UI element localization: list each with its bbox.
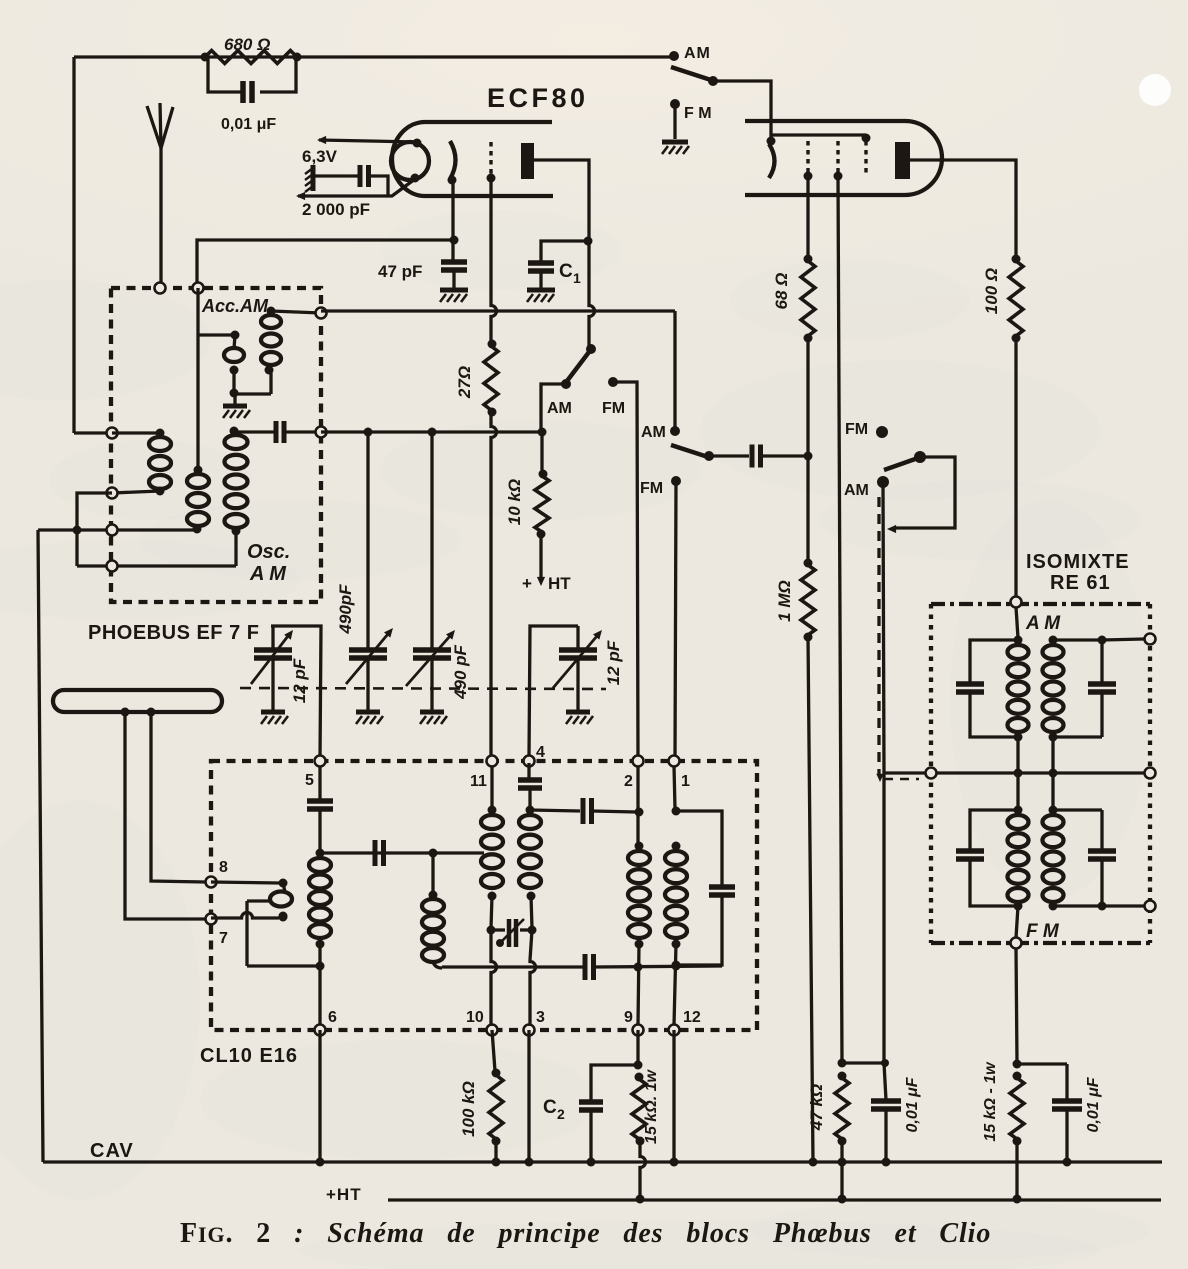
wire ground to 2000pF cap	[315, 174, 359, 177]
wire AM secondary to node	[1102, 639, 1145, 640]
wire pin5 vertical	[318, 766, 321, 800]
label 10 k ohm	[505, 479, 524, 525]
wire ISOMIXTE bottom out	[1016, 906, 1018, 1062]
wire S2 FM to pin2	[613, 382, 638, 760]
capacitor 2000 pF	[360, 165, 369, 187]
wire y530 row	[38, 528, 197, 531]
wire 27ohm vertical g1 triode	[491, 178, 497, 760]
svg-text:2: 2	[557, 1106, 565, 1122]
coil T2 primary IF2	[628, 766, 650, 1025]
capacitor 0,01 uF across R1	[243, 81, 252, 103]
label RE 61	[1050, 572, 1111, 594]
ground wall for 2000pF	[305, 165, 313, 192]
wire grid return to Acc AM	[197, 236, 459, 289]
caption Fig 2	[180, 1218, 991, 1249]
wire 6,3V to heater	[317, 136, 417, 144]
resistor 15k 1w second	[1010, 1060, 1024, 1204]
label C1	[559, 261, 581, 286]
svg-text:ECF80: ECF80	[487, 83, 589, 113]
capacitor series y967	[585, 954, 594, 980]
node ISOMIXTE left	[926, 768, 937, 779]
svg-text:FM: FM	[845, 421, 868, 438]
label 68 ohm	[772, 273, 791, 310]
node box right y313	[316, 308, 327, 319]
arrow 490pF first	[346, 628, 393, 684]
capacitor FM secondary parallel	[1053, 810, 1116, 911]
node ISOMIXTE bottom	[1011, 938, 1022, 949]
label 0,01 uF first	[904, 1076, 921, 1132]
wire pin3 to CAV	[525, 1030, 534, 1167]
pin 3 CL10	[524, 1009, 546, 1036]
wire S4 to ISOMIXTE node	[884, 771, 929, 774]
pin 5 CL10	[305, 756, 326, 790]
coil T3 AM secondary	[1043, 636, 1064, 742]
label tube ECF80	[487, 83, 589, 113]
wire dipole right leg to pin8	[151, 712, 205, 882]
node box right y432	[316, 427, 327, 438]
pin 9 CL10	[624, 1009, 644, 1036]
coil T3 AM primary	[1008, 645, 1029, 742]
label +HT mid	[522, 574, 571, 593]
capacitor 47 pF	[441, 262, 467, 288]
grid g1 U1 pentode	[804, 141, 813, 181]
wire pin6 to CAV	[316, 1030, 325, 1167]
node box top grid wire	[193, 283, 204, 294]
pin 7 CL10	[206, 914, 229, 948]
label 1 M ohm	[775, 580, 794, 622]
label 47 k ohm	[807, 1084, 826, 1131]
ground 490pF first	[356, 712, 383, 724]
capacitor AM primary parallel	[956, 640, 1018, 737]
dashed gang line S4	[876, 497, 919, 782]
rail +HT bottom	[326, 1185, 1161, 1204]
ground Acc AM	[223, 394, 250, 418]
svg-text:4: 4	[536, 744, 545, 761]
svg-text:HT: HT	[548, 574, 571, 593]
capacitor osc AM padder	[234, 421, 321, 443]
svg-text:PHOEBUS EF 7 F: PHOEBUS EF 7 F	[88, 622, 259, 644]
resistor 47 k ohm	[835, 1059, 849, 1204]
dashed block Phoebus Acc-AM Osc-AM	[111, 288, 321, 602]
coil L1 antenna AM	[112, 429, 171, 496]
svg-text:27Ω: 27Ω	[455, 366, 474, 399]
svg-text:Osc.: Osc.	[247, 541, 290, 563]
label Acc.AM	[201, 296, 269, 316]
svg-text:Acc.AM: Acc.AM	[201, 296, 269, 316]
label 2 000 pF	[302, 200, 370, 219]
pin 11 CL10	[470, 756, 498, 791]
wire pin7 inside	[211, 913, 288, 922]
svg-text:F M: F M	[684, 105, 712, 122]
label PHOEBUS EF 7 F	[88, 622, 259, 644]
node ISOMIXTE top	[1011, 597, 1022, 608]
svg-text:+: +	[522, 574, 532, 593]
svg-text:6: 6	[328, 1009, 337, 1026]
wire 2000pF to heater bottom	[296, 176, 415, 200]
switch S2 arm	[567, 344, 596, 381]
label 15k 1w first	[643, 1069, 660, 1144]
resistor 100 ohm	[1009, 255, 1023, 343]
node box left y433	[107, 428, 118, 439]
svg-text:100 kΩ: 100 kΩ	[459, 1081, 478, 1137]
switch S3 arm	[671, 445, 714, 461]
arrow trimmer 12pF first	[251, 630, 293, 684]
svg-text:2 000 pF: 2 000 pF	[302, 200, 370, 219]
wire 12pF-2 to pin4	[529, 626, 578, 758]
dashed gang line tuning	[240, 688, 606, 689]
ground 12pF second	[566, 712, 593, 724]
svg-text:68 Ω: 68 Ω	[772, 273, 791, 310]
capacitor pin5 series	[307, 801, 333, 858]
arrow 12pF second	[553, 630, 602, 688]
switch S2 AM contact	[547, 379, 572, 417]
wire 490pF-2 to bus	[430, 432, 433, 650]
variable capacitor 490pF first	[349, 650, 387, 710]
wire g2 long lead	[838, 176, 842, 1063]
antenna	[147, 103, 173, 287]
svg-text:1 MΩ: 1 MΩ	[775, 580, 794, 622]
variable capacitor 12pF second	[559, 626, 597, 710]
coil L2 osc coupling	[187, 288, 209, 534]
ground 12pF first	[261, 712, 288, 724]
FM dipole antenna	[53, 690, 222, 717]
coupling loop pins 8-7	[211, 879, 292, 921]
wire pentode anode to 100 ohm line	[910, 160, 1016, 259]
cathode U1 pentode	[767, 137, 776, 179]
wire trimmer legs to pins 10 3	[491, 960, 536, 1026]
coil L0 acc primary	[198, 331, 244, 398]
wire tap y853	[320, 849, 484, 858]
capacitor across T2 secondary	[676, 811, 735, 965]
svg-text:0,01 μF: 0,01 μF	[1085, 1076, 1102, 1132]
svg-text:12 pF: 12 pF	[290, 658, 309, 703]
svg-text:100 Ω: 100 Ω	[982, 268, 1001, 314]
capacitor series y853	[375, 840, 384, 866]
wire loop tail	[247, 901, 320, 966]
wire S4 AM down	[883, 482, 884, 1063]
grid g3 U1 pentode	[864, 141, 867, 174]
wire pin12 to CAV	[670, 1030, 679, 1167]
svg-text:1: 1	[573, 270, 581, 286]
resistor 68 ohm	[801, 255, 815, 343]
svg-text:A M: A M	[1025, 613, 1061, 634]
wire bypass loop around R1	[208, 57, 296, 92]
coil T4 FM secondary	[1043, 815, 1064, 911]
wire 68ohm to junction	[806, 338, 809, 456]
resistor 10 k ohm	[535, 470, 549, 539]
wire anode to C1 junction and switch	[534, 160, 595, 349]
svg-text:AM: AM	[641, 424, 666, 441]
svg-text:2: 2	[624, 773, 633, 790]
svg-text:F M: F M	[1026, 921, 1060, 942]
node ISOMIXTE right bottom	[1145, 901, 1156, 912]
wire g3 tie	[771, 134, 871, 143]
svg-text:6,3V: 6,3V	[302, 147, 338, 166]
svg-text:AM: AM	[547, 400, 572, 417]
switch S4 arm	[884, 451, 926, 470]
resistor 27 ohm	[484, 340, 498, 417]
coil T4 FM primary	[1008, 815, 1029, 911]
label 12 pF first	[290, 658, 309, 703]
switch S4 FM contact	[845, 421, 888, 438]
svg-text:FIG. 2 : Schéma de principe de: FIG. 2 : Schéma de principe des blocs Ph…	[180, 1218, 991, 1249]
svg-text:FM: FM	[602, 400, 625, 417]
wire grid bus y311	[321, 311, 675, 427]
wire S3 FM to pin1	[675, 481, 676, 760]
switch S1a AM contact	[669, 45, 711, 62]
label ISOMIXTE	[1026, 551, 1130, 573]
resistor 1 M ohm	[801, 456, 815, 642]
label Osc. AM	[247, 541, 290, 585]
switch S2 FM contact	[602, 377, 625, 417]
node box top antenna	[155, 283, 166, 294]
svg-text:5: 5	[305, 772, 314, 789]
wire left jog x77	[73, 493, 113, 566]
coil osc second	[519, 815, 541, 935]
switch S1a arm	[671, 67, 718, 86]
ground 490pF second	[420, 712, 447, 724]
trimmer capacitor CL10	[491, 919, 532, 960]
wire acc secondary top to node	[271, 311, 321, 313]
tube U1 pentode envelope	[745, 121, 942, 195]
svg-text:+HT: +HT	[326, 1185, 362, 1204]
wire CAV left rail	[38, 530, 43, 1162]
wire top bus from left corner to AM switch	[74, 57, 674, 433]
svg-text:11: 11	[470, 773, 487, 790]
label 100 k ohm	[459, 1081, 478, 1137]
svg-text:10 kΩ: 10 kΩ	[505, 479, 524, 525]
capacitor pin4 series	[518, 763, 542, 815]
wire y967 long	[442, 962, 722, 972]
ground for FM contact	[662, 142, 689, 154]
node ISOMIXTE right mid	[1145, 768, 1156, 779]
capacitor S3 coupling	[709, 445, 813, 468]
bus ISOMIXTE middle	[936, 771, 1145, 774]
label 47 pF	[378, 262, 422, 281]
dashed block CL10 E16	[211, 761, 757, 1030]
label 100 ohm	[982, 268, 1001, 314]
pin 8 CL10	[206, 859, 229, 888]
svg-text:FM: FM	[640, 480, 663, 497]
capacitor FM primary parallel	[956, 810, 1018, 906]
node ISOMIXTE right top	[1145, 634, 1156, 645]
bus CAV	[43, 1160, 1162, 1163]
label 12 pF second	[604, 640, 623, 685]
label AM in ISOMIXTE	[1025, 613, 1061, 634]
svg-text:1: 1	[681, 773, 690, 790]
svg-text:7: 7	[219, 930, 228, 947]
svg-text:47 kΩ: 47 kΩ	[807, 1084, 826, 1131]
pin 6 CL10	[315, 1009, 338, 1036]
svg-text:CAV: CAV	[90, 1140, 134, 1162]
label CL10 E16	[200, 1045, 298, 1067]
switch S4 AM contact	[844, 476, 889, 499]
svg-text:8: 8	[219, 859, 228, 876]
node box left y566	[107, 561, 118, 572]
svg-text:C: C	[543, 1097, 557, 1118]
resistor R1 680 ohm	[201, 51, 302, 64]
variable capacitor 490pF second	[413, 650, 451, 710]
wire FM transformer feeds	[1014, 773, 1058, 815]
svg-text:490 pF: 490 pF	[451, 644, 470, 699]
coil T1 primary IF1	[309, 858, 331, 1025]
svg-text:15 kΩ. 1w: 15 kΩ. 1w	[643, 1069, 660, 1144]
wire 10k from bus	[540, 432, 543, 474]
svg-text:A M: A M	[249, 563, 287, 585]
anode U1 triode	[521, 143, 534, 179]
ground for C1	[527, 290, 555, 302]
label 490 pF second	[451, 644, 470, 699]
wire dipole left leg to pin7	[125, 712, 205, 919]
tube U1 triode envelope	[392, 122, 553, 196]
label 6,3V	[302, 147, 338, 166]
grid U1 triode	[487, 142, 496, 183]
svg-text:47 pF: 47 pF	[378, 262, 422, 281]
svg-text:AM: AM	[684, 45, 711, 62]
svg-text:12: 12	[683, 1009, 701, 1026]
svg-text:0,01 μF: 0,01 μF	[221, 116, 276, 133]
wire FM secondary to node	[1053, 904, 1145, 907]
svg-text:CL10 E16: CL10 E16	[200, 1045, 298, 1067]
cathode U1 triode	[448, 141, 457, 185]
svg-text:12 pF: 12 pF	[604, 640, 623, 685]
capacitor 0,01uF first	[842, 1059, 901, 1167]
coil T2 secondary IF2	[665, 766, 687, 1025]
svg-text:ISOMIXTE: ISOMIXTE	[1026, 551, 1130, 573]
wire y811 link	[530, 798, 644, 824]
switch S3 FM contact	[640, 476, 681, 497]
wire S4 pivot loop	[887, 457, 955, 533]
label 0,01 uF	[221, 116, 276, 133]
pin 10 CL10	[466, 1009, 498, 1036]
label 15k 1w second	[982, 1061, 999, 1142]
heater circle U1	[391, 139, 429, 183]
variable capacitor 12pF first	[254, 626, 292, 710]
supply +HT arrow	[537, 534, 545, 586]
wire bus y432	[321, 428, 547, 437]
svg-text:3: 3	[536, 1009, 545, 1026]
pin 12 CL10	[669, 1009, 701, 1036]
svg-text:RE 61: RE 61	[1050, 572, 1111, 594]
label 0,01 uF second	[1085, 1076, 1102, 1132]
wire S2 AM to bus	[541, 384, 566, 432]
coil L0b acc secondary	[234, 307, 281, 395]
wire 490pF-1 to bus	[366, 432, 369, 650]
label 490pF first	[336, 584, 355, 635]
wire 1Mohm to CAV bus	[808, 637, 818, 1167]
resistor 100 k ohm	[489, 1030, 503, 1167]
switch S3 AM contact	[641, 424, 680, 441]
resistor 15k 1w first	[632, 1030, 646, 1204]
svg-text:0,01 μF: 0,01 μF	[904, 1076, 921, 1132]
capacitor C1	[528, 237, 593, 289]
wire AM transformer returns	[1014, 737, 1058, 778]
wire cathode lead	[451, 180, 454, 261]
svg-text:AM: AM	[844, 482, 869, 499]
label 27 ohm	[455, 366, 474, 399]
svg-text:680 Ω: 680 Ω	[224, 35, 270, 54]
anode U1 pentode	[895, 142, 910, 179]
node box left y493	[107, 488, 118, 499]
svg-text:10: 10	[466, 1009, 484, 1026]
wire switch to pentode cathode	[713, 81, 771, 138]
capacitor 0,01uF second	[1017, 1064, 1082, 1167]
svg-text:9: 9	[624, 1009, 633, 1026]
capacitor AM secondary parallel	[1053, 636, 1116, 738]
wire 12pF to pin5	[271, 626, 321, 760]
pin 4 CL10	[524, 744, 546, 767]
svg-text:15 kΩ - 1w: 15 kΩ - 1w	[982, 1061, 999, 1142]
label FM in ISOMIXTE	[1026, 921, 1060, 942]
pin 1 CL10	[669, 756, 691, 791]
node box left y530	[107, 525, 118, 536]
coil T1b secondary IF1	[481, 766, 503, 935]
wire antenna node row	[74, 431, 112, 434]
grid g2 U1 pentode	[834, 141, 843, 181]
coil L3 osc AM tank	[225, 427, 248, 567]
wire y566 row	[77, 564, 236, 567]
svg-text:C: C	[559, 261, 573, 282]
label 680 ohm	[224, 35, 270, 54]
capacitor C2	[543, 1065, 637, 1167]
pin 2 CL10	[624, 756, 644, 791]
label CAV	[90, 1140, 134, 1162]
coil L853 hanging	[422, 853, 444, 968]
switch S1a FM contact grounded	[670, 99, 712, 139]
svg-text:490pF: 490pF	[336, 584, 355, 635]
wire 100ohm to ISOMIXTE	[1014, 338, 1017, 599]
wire ISOMIXTE AM feed	[1014, 607, 1023, 645]
arrow 490pF second	[406, 630, 455, 686]
dashed block ISOMIXTE RE61	[931, 604, 1150, 943]
ground for 47pF	[440, 290, 468, 302]
wire g1 lead	[806, 176, 809, 259]
